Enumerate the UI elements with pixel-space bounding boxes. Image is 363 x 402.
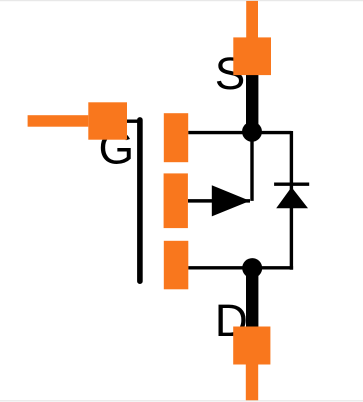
junction dot D [242, 258, 262, 278]
pin G pad [88, 102, 127, 139]
pin S stub [246, 1, 258, 38]
transistor arrow [212, 185, 250, 216]
channel segment bottom [164, 241, 189, 289]
diode D1 anode triangle [276, 187, 308, 208]
wire D thick [246, 268, 258, 327]
wire source-to-arrow vertical [250, 133, 253, 201]
wire diode branch vertical [290, 131, 293, 270]
pin D stub [246, 365, 258, 401]
channel segment middle [164, 173, 188, 228]
channel segment top (drain side pad) [164, 113, 188, 162]
pin G stub [28, 115, 89, 127]
diode D1 cathode bar [274, 182, 309, 185]
pin S pad [233, 37, 271, 75]
wire S thick [246, 56, 258, 132]
gate bar G1 [137, 120, 143, 281]
wire top horizontal S-node [188, 131, 291, 134]
junction dot S [242, 122, 262, 142]
wire bottom horizontal D-node [188, 266, 293, 269]
pin D pad [233, 327, 270, 365]
wire gate stub [126, 119, 140, 122]
wire gate channel middle [188, 199, 250, 203]
